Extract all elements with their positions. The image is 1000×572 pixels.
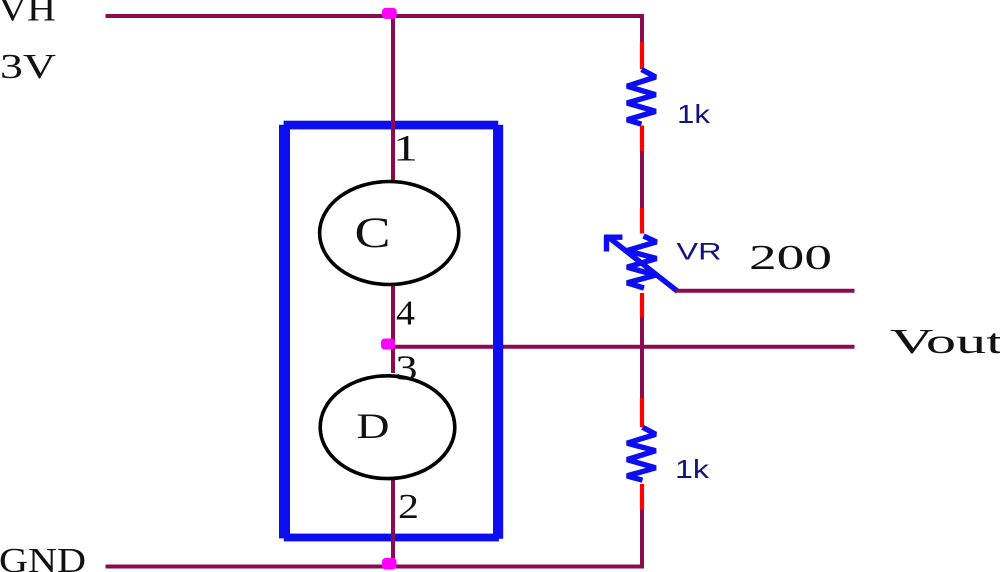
component body (blue box) right bar — [493, 125, 503, 539]
junction dot bottom — [382, 558, 397, 570]
resistor R2 bottom lead (red) — [640, 484, 644, 510]
svg-text:1: 1 — [393, 129, 418, 170]
svg-text:1k: 1k — [677, 99, 711, 129]
resistor R1 zigzag — [627, 70, 656, 125]
potentiometer VR arrowhead horizontal barb — [604, 234, 623, 239]
component body (blue box) left bar — [279, 125, 290, 539]
resistor R2 top lead (red) — [640, 398, 644, 427]
svg-text:VH: VH — [0, 0, 56, 29]
svg-text:2: 2 — [398, 487, 419, 526]
svg-text:GND: GND — [0, 541, 86, 572]
wire between VR and R2 — [640, 317, 644, 398]
svg-text:3: 3 — [396, 349, 418, 388]
lamp C ellipse — [320, 182, 459, 285]
resistor R1 top lead (red) — [640, 42, 644, 69]
lamp D ellipse — [320, 376, 455, 479]
potentiometer VR top lead (red) — [640, 208, 644, 234]
svg-text:VR: VR — [677, 239, 722, 266]
component body (blue box) top bar — [284, 121, 499, 130]
junction dot top — [382, 8, 397, 19]
wire pin2 vertical — [391, 479, 395, 567]
junction dot middle — [381, 339, 395, 350]
potentiometer VR arrowhead vertical barb — [604, 236, 609, 252]
wire pin1 vertical — [391, 16, 395, 181]
wire VR wiper output horizontal — [676, 289, 855, 293]
resistor R1 bottom lead (red) — [640, 126, 644, 152]
svg-text:1k: 1k — [675, 454, 710, 484]
component body (blue box) bottom bar — [284, 534, 499, 542]
wire VH horizontal + corner down right branch — [106, 16, 643, 42]
wire between R1 and VR — [640, 151, 644, 208]
svg-text:C: C — [355, 210, 391, 257]
wire pin4-pin3 vertical — [391, 285, 395, 373]
resistor R2 zigzag — [627, 427, 656, 480]
potentiometer VR zigzag — [627, 236, 657, 288]
svg-text:4: 4 — [396, 294, 415, 333]
svg-text:D: D — [357, 406, 390, 446]
potentiometer VR wiper diagonal arrow — [610, 238, 678, 291]
wire GND horizontal + corner up right branch — [106, 509, 643, 567]
svg-text:3V: 3V — [0, 47, 56, 86]
potentiometer VR bottom lead (red) — [640, 293, 644, 317]
svg-text:Vout: Vout — [890, 322, 1000, 361]
svg-text:200: 200 — [749, 238, 832, 277]
wire Vout horizontal — [391, 345, 855, 349]
